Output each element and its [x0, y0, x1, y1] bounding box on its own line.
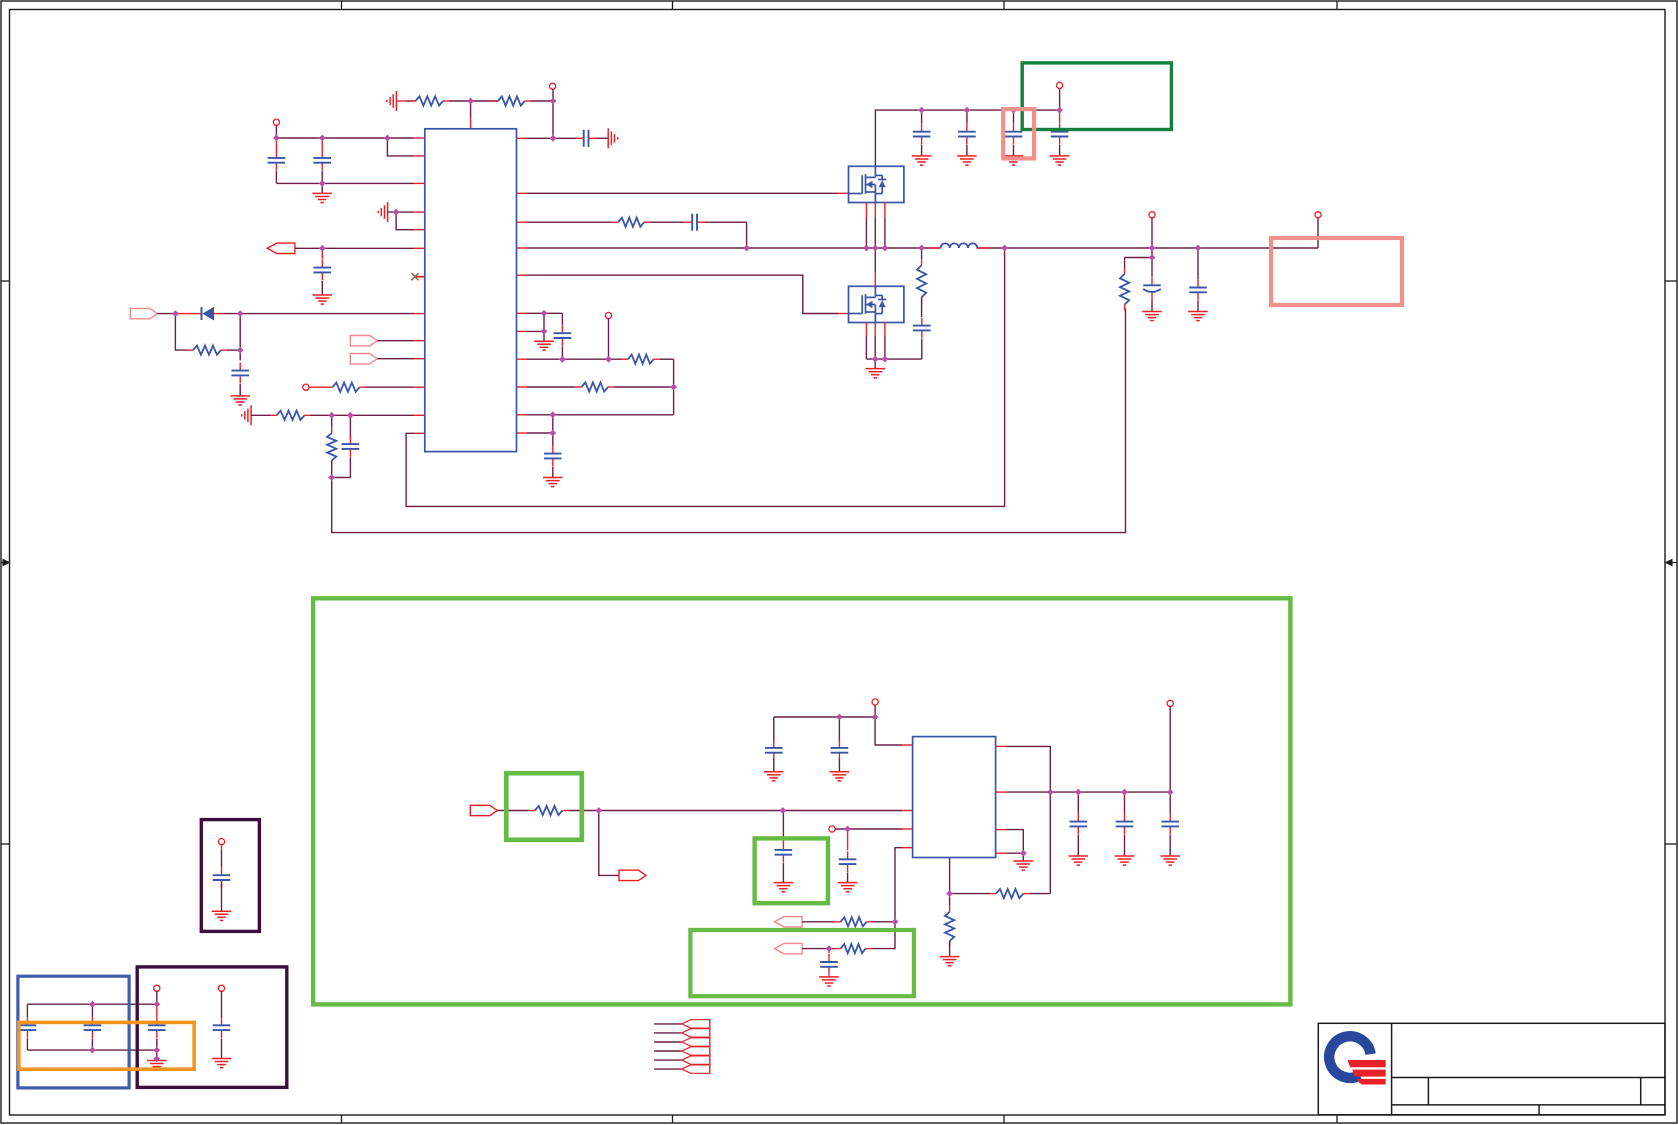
wire: [874, 359, 876, 369]
wire: [332, 477, 351, 479]
wire: [608, 319, 610, 360]
ground GND7: [1142, 312, 1162, 321]
wire: [531, 100, 553, 102]
wire: [543, 331, 545, 341]
pin stub U1 p3: [414, 182, 425, 184]
wire: [782, 863, 784, 883]
capacitor C5: [231, 363, 249, 384]
wire: [1125, 257, 1152, 259]
terminal T5: [1057, 82, 1063, 88]
wire: [949, 894, 951, 906]
pin stub U1 r2: [517, 221, 528, 223]
pin stub U1 p12: [414, 414, 425, 416]
wire: [331, 415, 333, 427]
resistor R11 feedback top: [1120, 268, 1129, 311]
wire: [921, 297, 923, 317]
wire HG to Q1 gate: [527, 192, 838, 194]
terminal T7 VOUT: [1315, 212, 1321, 218]
ground GND8: [1188, 312, 1208, 321]
wire: [1029, 893, 1050, 895]
ground GND out C24: [1160, 856, 1180, 865]
ground GND4: [534, 341, 554, 350]
wire: [406, 100, 416, 102]
ground GND13: [819, 977, 839, 986]
wire: [349, 415, 351, 438]
resistor R9: [576, 382, 614, 391]
port SCL flag: [350, 336, 377, 346]
junction dots cap bank: [89, 1001, 160, 1062]
resistor R2: [492, 96, 531, 105]
ground GND11: [838, 883, 858, 892]
MOSFET Q1: [849, 166, 904, 202]
wire: [802, 948, 829, 950]
wire: [1022, 853, 1024, 861]
connector J1 pins: [682, 1019, 710, 1074]
wire: [321, 183, 323, 193]
pin stub U1 r8: [517, 386, 528, 388]
junction dots bottom circuit: [595, 714, 1173, 952]
wire: [221, 991, 223, 1017]
resistor R4: [326, 383, 365, 392]
IC U2 LDO regulator: [913, 737, 996, 858]
wire feedback long: [332, 309, 1126, 533]
resistor R10 snubber: [917, 259, 926, 303]
wire: [1059, 89, 1061, 111]
pin stub Q2 drain: [874, 272, 876, 286]
wire stub under cap C20 top: [782, 840, 784, 842]
wire: [1013, 110, 1015, 124]
wire stub: [175, 313, 192, 315]
wire: [884, 218, 886, 248]
highlight box purple bank: [137, 967, 287, 1088]
wire: [311, 414, 415, 416]
capacitor C22 out: [1070, 814, 1088, 835]
wire: [597, 137, 609, 139]
pin stub U1 p10: [414, 358, 425, 360]
wire: [552, 415, 554, 433]
wire: [1169, 792, 1171, 814]
wire: [377, 358, 414, 360]
ground GND out C22: [1069, 856, 1089, 865]
wire: [321, 141, 323, 150]
pin stub U1 p9: [414, 340, 425, 342]
capacitor C25: [213, 867, 231, 888]
capacitor C3: [314, 260, 332, 281]
capacitor C6: [342, 436, 360, 457]
ground GND input C11: [957, 156, 977, 165]
IC U1 buck controller: [425, 129, 517, 452]
terminal T11: [218, 839, 224, 845]
pin stub U1 r4: [517, 274, 528, 276]
resistor R8: [622, 355, 660, 364]
wire: [321, 248, 323, 259]
pin stub U1 p6: [414, 247, 425, 249]
wire stub: [309, 386, 326, 388]
pin stub Q2: [884, 323, 886, 337]
wire: [156, 1004, 158, 1017]
wire: [1151, 248, 1153, 277]
capacitor C23 out: [1116, 814, 1134, 835]
pin stub Q2: [874, 323, 876, 337]
wire: [828, 975, 830, 977]
wire rail to VOUT terminal: [1317, 218, 1319, 248]
wire: [746, 222, 748, 248]
wire input rail to Q1 drain: [875, 110, 1059, 166]
highlight box green R12: [506, 773, 582, 840]
terminal T12: [154, 985, 160, 991]
wire: [614, 386, 674, 388]
wire Q2 source rail: [866, 358, 921, 360]
resistor R1: [410, 96, 450, 105]
junction dots top circuit: [172, 98, 1201, 481]
ground GND15: [1014, 861, 1034, 870]
pin stub U1 r9: [517, 414, 528, 416]
wire: [377, 340, 414, 342]
highlight box salmon output: [1271, 238, 1402, 305]
wire: [865, 218, 867, 248]
capacitor C11 input: [958, 124, 976, 145]
terminal T2: [273, 119, 279, 125]
wire: [543, 313, 545, 331]
wire: [275, 125, 277, 138]
port flag FB1: [774, 917, 802, 927]
wire: [921, 145, 923, 156]
wire: [239, 314, 241, 351]
analog ground AGND1: [387, 91, 397, 111]
highlight box green C20: [755, 838, 828, 903]
wire out rail U2: [1006, 791, 1170, 793]
capacitor C7: [684, 214, 705, 231]
wire: [773, 758, 775, 771]
wire: [552, 433, 554, 446]
pin stub: [397, 100, 406, 102]
wire: [227, 349, 240, 351]
pin stub U2 p2: [902, 810, 913, 812]
resistor R5: [271, 411, 311, 420]
pin stub U2 r4: [996, 852, 1007, 854]
wire: [240, 313, 414, 315]
wire: [388, 211, 415, 213]
terminal T6: [1149, 212, 1155, 218]
wire: [949, 858, 951, 894]
resistor R15: [990, 889, 1029, 898]
wire: [673, 359, 675, 415]
wire U2 r1 loop: [1006, 746, 1050, 893]
pin stub U1 r1: [517, 192, 528, 194]
ground GND5: [543, 478, 563, 487]
port flag FB2: [774, 943, 802, 953]
capacitor C15 output: [1143, 277, 1161, 300]
wire: [921, 248, 923, 259]
highlight box green big: [313, 598, 1290, 1004]
capacitor C8: [554, 325, 572, 346]
capacitor C19: [839, 851, 857, 872]
wire: [1013, 145, 1015, 156]
wire: [221, 845, 223, 851]
wire: [773, 717, 775, 742]
wire: [1059, 110, 1061, 124]
wire: [1059, 145, 1061, 156]
title block: [1318, 1023, 1665, 1115]
highlight box orange bank: [19, 1022, 194, 1069]
pin stub U1 p11: [414, 386, 425, 388]
pin stub Q1: [884, 203, 886, 219]
wire: [568, 810, 902, 812]
wire: [1124, 835, 1126, 856]
wire: [156, 1039, 158, 1051]
wire: [26, 1004, 28, 1017]
wire: [921, 110, 923, 124]
wire: [239, 384, 241, 396]
wire: [552, 467, 554, 478]
wire: [91, 1039, 93, 1051]
capacitor C20: [775, 842, 793, 863]
capacitor C10 input: [913, 124, 931, 145]
diode D1: [192, 307, 224, 321]
wire: [1169, 707, 1171, 793]
wire cap bank top rail: [27, 1003, 156, 1005]
capacitor C4: [576, 130, 597, 147]
wire: [847, 873, 849, 883]
terminal T4: [605, 312, 611, 318]
port VIN flag: [130, 308, 157, 318]
capacitor C9: [544, 446, 562, 467]
inductor L1: [929, 243, 990, 248]
pin stub U1 p1: [414, 137, 425, 139]
port flag OUT2: [619, 870, 646, 880]
wire: [552, 89, 554, 138]
resistor R14: [835, 944, 872, 953]
wire: [221, 882, 223, 911]
capacitor bank 92.4: [84, 1017, 102, 1038]
wire: [527, 386, 576, 388]
wire: [1124, 258, 1126, 269]
wire SW rail left: [527, 247, 941, 249]
pin stub U1 p4: [414, 211, 425, 213]
wire: [157, 313, 175, 315]
terminal T1: [550, 83, 556, 89]
wire: [874, 705, 876, 717]
capacitor C12 input: [1005, 124, 1023, 145]
wire: [874, 218, 876, 248]
MOSFET Q2: [849, 286, 904, 322]
resistor R7: [612, 218, 650, 227]
terminal T13: [218, 985, 224, 991]
pin stub U1 p5: [414, 229, 425, 231]
wire: [1197, 248, 1199, 279]
capacitor bank 156.8: [148, 1017, 166, 1038]
pin stub U1 p13: [414, 432, 425, 434]
wire: [847, 829, 849, 850]
wire: [1169, 835, 1171, 856]
wire agnd to pin5: [396, 212, 414, 230]
wire: [874, 336, 876, 359]
resistor R13: [835, 917, 873, 926]
wire top-left rail: [276, 137, 414, 139]
wire bend to pin2: [387, 138, 414, 156]
ground GND2: [313, 295, 333, 304]
port SDA flag: [350, 354, 377, 364]
wire: [838, 758, 840, 771]
wire to U2 vin pin: [875, 717, 902, 745]
wire: [561, 346, 563, 359]
capacitor C13 input: [1051, 124, 1069, 145]
wire: [829, 948, 835, 950]
ground GND18: [212, 1059, 232, 1068]
wire cap bank bottom rail: [27, 1049, 156, 1051]
resistor R12: [529, 806, 569, 815]
border mid arrow left: [1, 559, 11, 567]
highlight box blue bank: [18, 976, 129, 1088]
wire top rail U2: [774, 716, 875, 718]
port EN flag: [267, 243, 295, 253]
pin stub U2 p3: [902, 828, 913, 830]
capacitor C14 snubber: [913, 318, 931, 339]
capacitor C16 output: [1189, 280, 1207, 301]
pin stub U1 p2: [414, 155, 425, 157]
ground GND10: [830, 772, 850, 781]
capacitor bank 27.4: [19, 1017, 37, 1038]
wire: [1077, 792, 1079, 814]
wire: [873, 921, 896, 923]
resistor R3: [187, 346, 227, 355]
wire: [221, 851, 223, 867]
capacitor C21: [820, 954, 838, 975]
wire: [449, 100, 498, 102]
pin stub U2 r2: [996, 791, 1007, 793]
wire: [828, 949, 830, 954]
wire: [251, 414, 271, 416]
wire: [224, 313, 241, 315]
capacitor C18: [831, 740, 849, 761]
wire: [865, 336, 867, 359]
ground GND12: [774, 883, 794, 892]
pin stub Q2: [865, 323, 867, 337]
company logo: [1329, 1036, 1385, 1084]
wire: [275, 171, 277, 183]
pin stub U1 r3 SW: [517, 247, 528, 249]
ground GND out C23: [1115, 856, 1135, 865]
wire: [884, 336, 886, 359]
wire: [561, 313, 563, 325]
wire: [156, 991, 158, 1004]
connector J1 wires: [654, 1024, 682, 1069]
wire: [1151, 301, 1153, 312]
ground GND1: [312, 193, 332, 202]
wire: [91, 1004, 93, 1017]
pin stub U2 r3: [996, 829, 1007, 831]
pin stub U1 r6: [517, 330, 528, 332]
wire: [650, 221, 684, 223]
pin stub U1 r10: [517, 432, 528, 434]
pin stub Q1: [865, 203, 867, 219]
pin stub U1 r5: [517, 312, 528, 314]
wire: [966, 145, 968, 156]
wire: [782, 811, 784, 842]
wire: [1006, 852, 1023, 854]
wire: [366, 386, 415, 388]
wire: [838, 717, 840, 742]
wire: [156, 1050, 158, 1060]
wire: [470, 101, 472, 118]
pin stub U1 top: [470, 118, 472, 129]
pin stub U2 p4: [902, 847, 913, 849]
pin stub U1 VCC: [517, 137, 528, 139]
ground GND9: [764, 772, 784, 781]
pin stub U2 p1: [902, 744, 913, 746]
pin stub U2 r1: [996, 745, 1007, 747]
wire bootstrap loop: [406, 248, 1005, 506]
terminal T3: [303, 384, 309, 390]
capacitor C1: [268, 150, 286, 171]
highlight box salmon small: [1003, 109, 1034, 158]
wire: [221, 1039, 223, 1059]
analog ground AGND2: [608, 128, 618, 148]
highlight box dark green: [1022, 63, 1171, 130]
wire: [275, 141, 277, 150]
ground GND16: [212, 911, 232, 920]
analog ground AGND4: [242, 405, 251, 425]
wire SW rail right: [977, 247, 1319, 249]
wire: [321, 171, 323, 183]
wire: [949, 941, 951, 957]
no-connect X mark: [411, 273, 418, 280]
wire U2 r3 loop: [1006, 830, 1023, 854]
ground GND input C13: [1050, 156, 1070, 165]
ground GND input C10: [912, 156, 932, 165]
wire: [527, 221, 612, 223]
wire: [950, 893, 991, 895]
wire stub Q1 gate: [838, 192, 849, 194]
terminal T9: [829, 826, 835, 832]
wire: [705, 221, 747, 223]
terminal T8: [872, 699, 878, 705]
wire stub Q2 gate: [838, 313, 849, 315]
ground GND14: [940, 957, 960, 966]
highlight box green FB: [690, 930, 914, 996]
ground GND input C12: [1004, 156, 1024, 165]
wire: [527, 414, 674, 416]
ground GND6: [865, 369, 885, 378]
pin stub U1 r7: [517, 358, 528, 360]
pin stub U1 p8: [414, 313, 425, 315]
wire: [527, 432, 553, 434]
highlight box purple C25: [201, 820, 259, 932]
pin stub Q1: [874, 203, 876, 219]
wire: [26, 1039, 28, 1051]
ground GND3: [230, 396, 250, 405]
wire: [497, 810, 529, 812]
analog ground AGND3: [378, 202, 387, 222]
wire: [966, 110, 968, 124]
wire: [1124, 792, 1126, 814]
wire: [1077, 835, 1079, 856]
wire: [921, 339, 923, 359]
wire: [660, 358, 674, 360]
capacitor C2: [313, 150, 331, 171]
border mid arrow right: [1665, 559, 1678, 567]
ground GND17: [147, 1061, 167, 1070]
wire: [349, 457, 351, 477]
wire: [527, 330, 544, 332]
wire: [331, 461, 333, 478]
wire to flag below: [599, 811, 620, 876]
wire U2 p4 loop: [872, 848, 902, 949]
wire: [527, 312, 562, 314]
capacitor C26: [213, 1017, 231, 1038]
wire: [802, 921, 835, 923]
resistor R6: [327, 427, 336, 467]
